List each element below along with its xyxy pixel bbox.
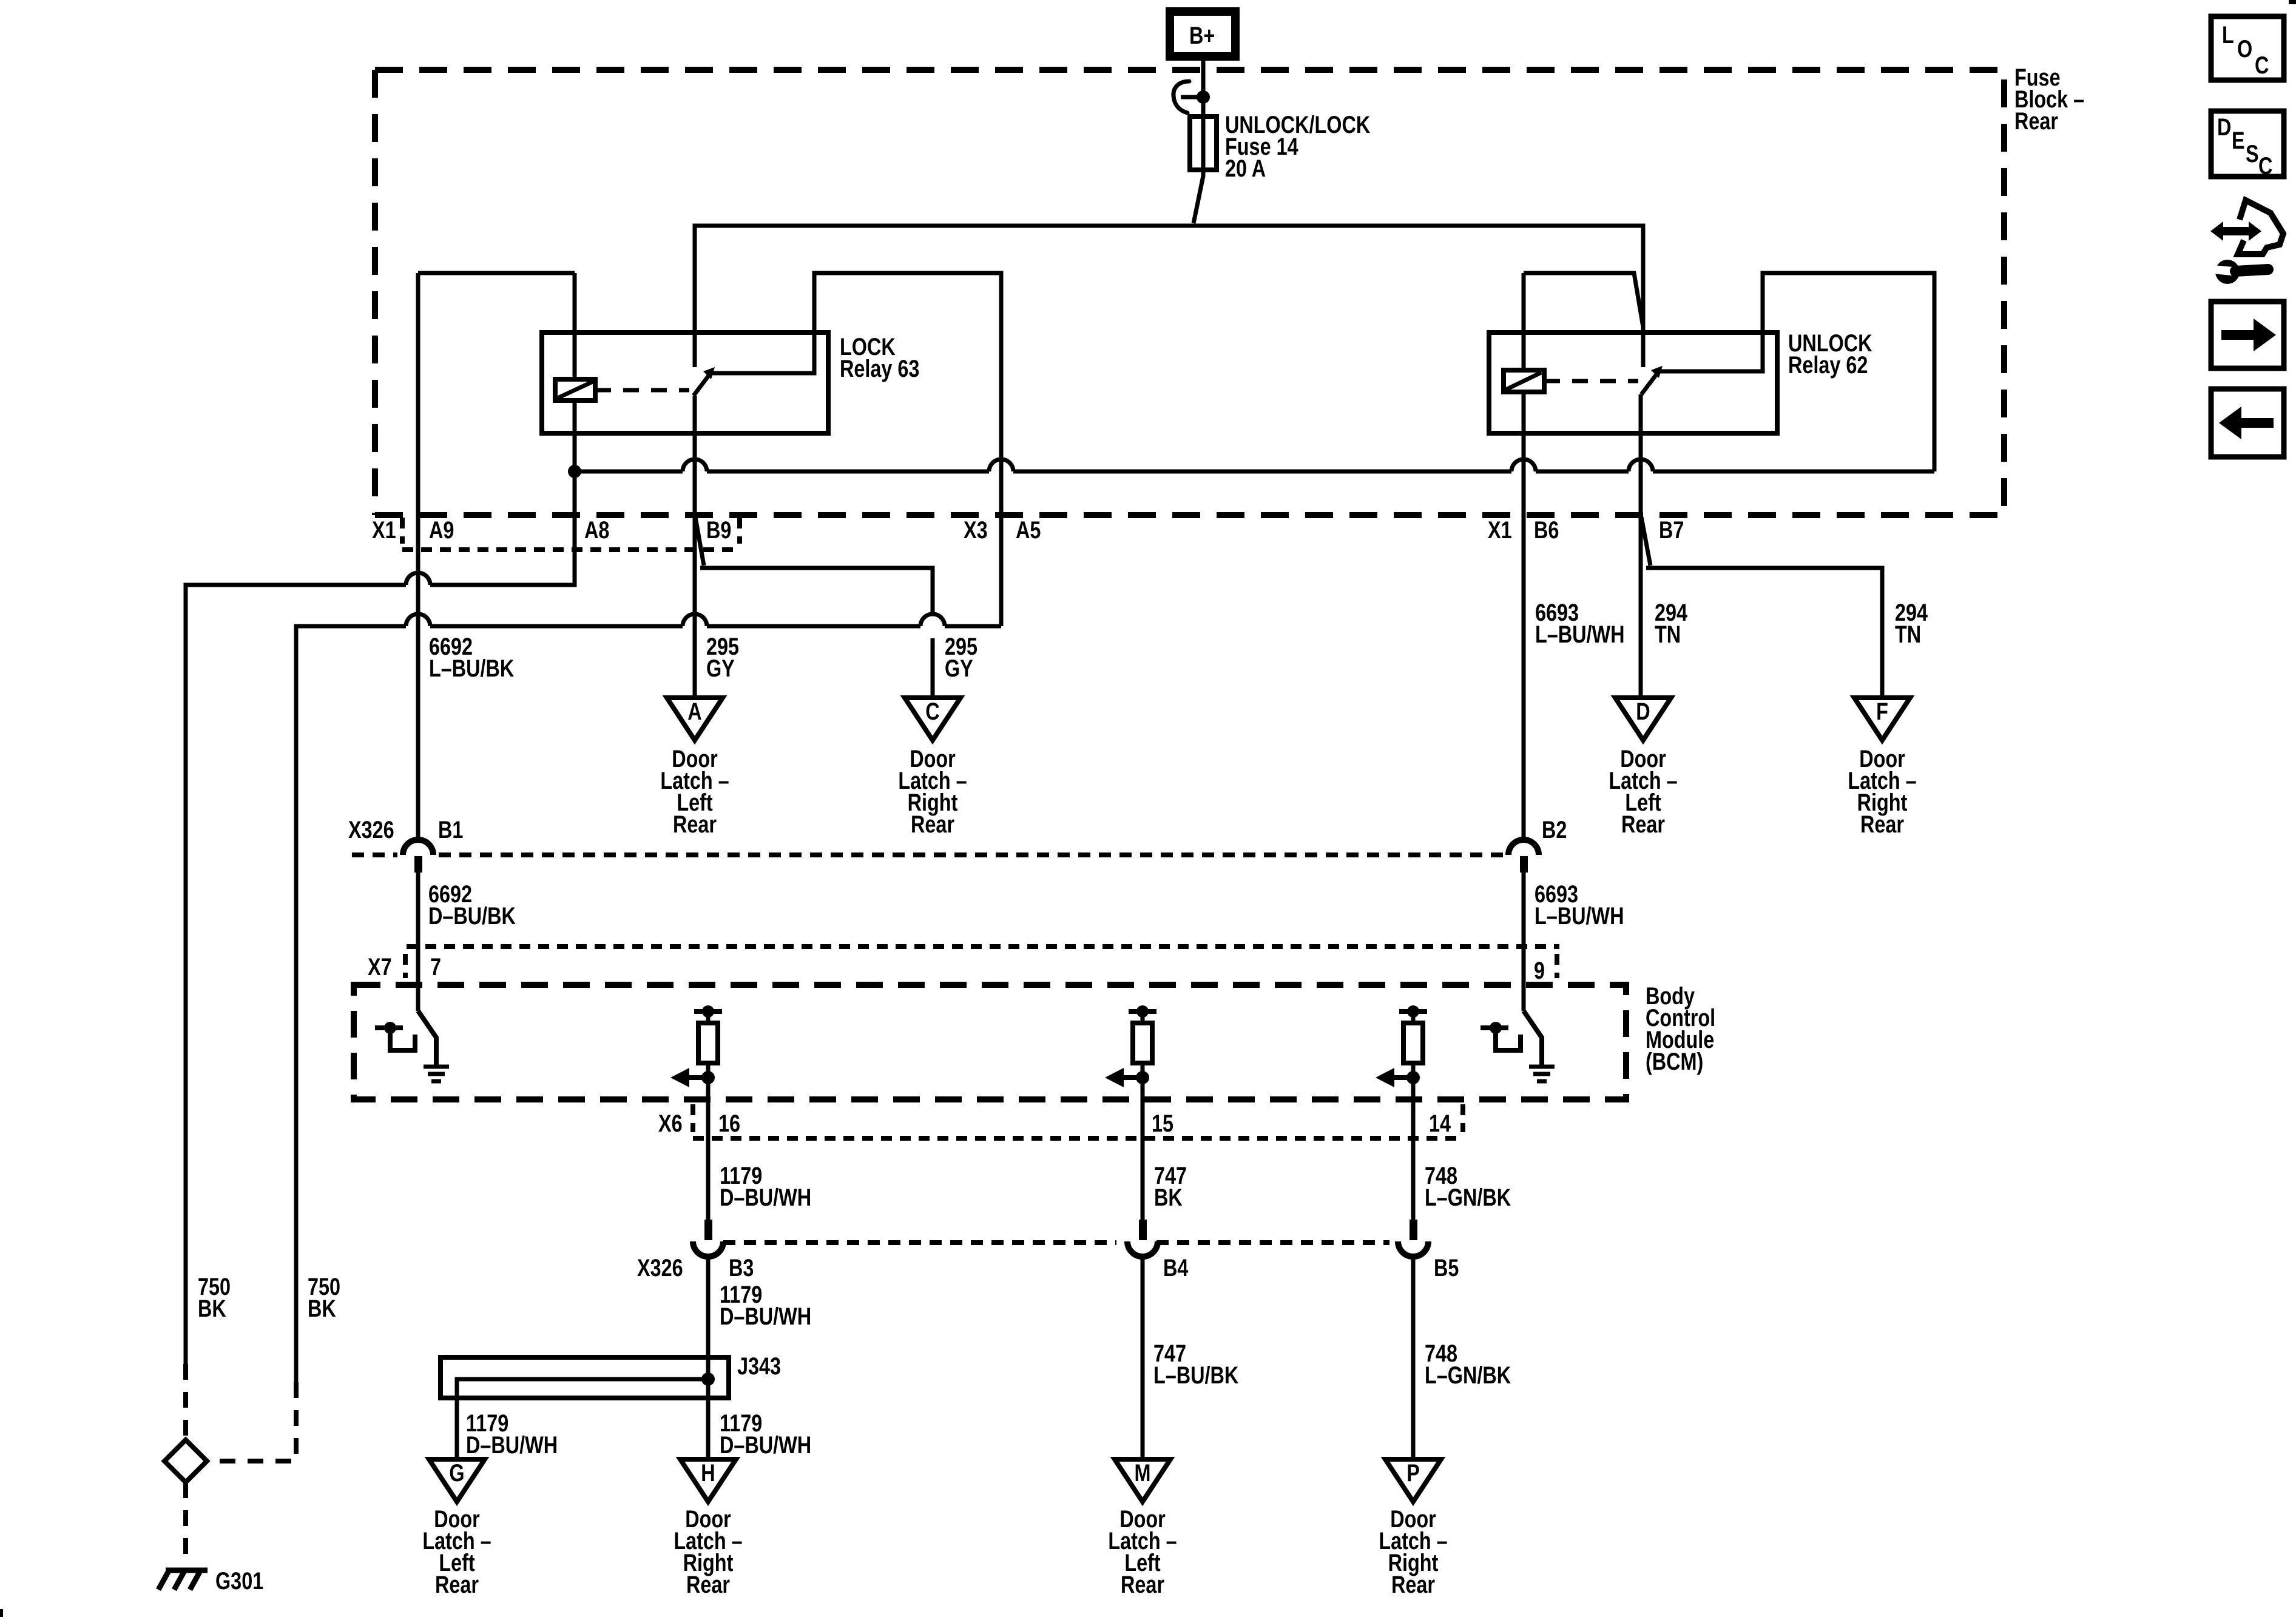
icon: LOC button [2211, 16, 2284, 80]
relay K63 switch arm [694, 367, 715, 396]
label: X1 (right) [1488, 516, 1512, 544]
wire 1179 D-BU/WH (B3 to J343) [706, 1256, 711, 1379]
label: LOCK Relay 63 [840, 333, 919, 382]
svg-text:M: M [1135, 1459, 1151, 1487]
splice diamond [164, 1440, 207, 1482]
svg-text:B6: B6 [1534, 516, 1559, 544]
label: X7 [368, 953, 392, 981]
label: 6692 D-BU/BK [428, 880, 516, 930]
svg-text:Rear: Rear [1391, 1571, 1435, 1598]
svg-text:D–BU/WH: D–BU/WH [720, 1303, 811, 1330]
label: 294 TN (right) [1895, 599, 1928, 648]
connector X326 B2 [1508, 840, 1539, 873]
connector triangle C [905, 698, 961, 740]
svg-text:L–BU/WH: L–BU/WH [1535, 621, 1624, 648]
svg-text:L–GN/BK: L–GN/BK [1425, 1362, 1511, 1389]
ground G301 [158, 1570, 208, 1590]
relay K63 coil top link [418, 271, 575, 275]
wire 750 BK dashed (left) [183, 1364, 188, 1440]
svg-text:D–BU/WH: D–BU/WH [466, 1431, 558, 1459]
relay K63 outline box [542, 333, 828, 433]
page mark (bottom left) [0, 1609, 3, 1617]
svg-text:Rear: Rear [1860, 811, 1904, 838]
wire: A8 to left 750 BK [186, 471, 575, 1364]
svg-text:B3: B3 [729, 1254, 754, 1281]
svg-text:A5: A5 [1016, 516, 1041, 544]
svg-text:Rear: Rear [435, 1571, 479, 1598]
inline connector dashed line (B1-B2 row) [352, 852, 1503, 857]
page corner mark (top right) [2289, 0, 2296, 4]
svg-text:L–BU/WH: L–BU/WH [1535, 902, 1624, 930]
BCM output driver (pin 14) [1376, 1005, 1427, 1099]
wire 747 BK (pin 15 to B4) [1141, 1099, 1145, 1220]
svg-text:BK: BK [308, 1295, 336, 1322]
connector X326 B5 [1398, 1220, 1428, 1257]
label: pin B9 [706, 516, 731, 544]
svg-text:J343: J343 [737, 1352, 781, 1380]
wire 1179 D-BU/WH (J343 to G) [455, 1398, 459, 1459]
svg-text:16: 16 [718, 1110, 740, 1137]
fuse clip symbol [1173, 81, 1210, 113]
svg-text:D–BU/WH: D–BU/WH [720, 1431, 811, 1459]
power symbol B+ [1170, 12, 1235, 56]
svg-text:X3: X3 [964, 516, 988, 544]
label: 748 L-GN/BK (pin 14) [1425, 1162, 1511, 1211]
svg-text:Rear: Rear [1121, 1571, 1164, 1598]
relay K63 switch throw to A5 [707, 273, 1001, 626]
svg-text:TN: TN [1895, 621, 1921, 648]
label: pin A9 [429, 516, 454, 544]
label: 6693 L-BU/WH (B2) [1535, 880, 1624, 930]
relay K62 coil top link [1524, 273, 1643, 327]
connector X326 B3 [693, 1220, 723, 1257]
relay K63 coil-switch dashed link [595, 388, 689, 393]
label: 750 BK (left) [198, 1273, 231, 1322]
wire: switched B+ feed bus [695, 226, 1643, 367]
svg-text:E: E [2232, 127, 2245, 154]
label: Door Latch - Left Rear (G) [422, 1505, 491, 1598]
svg-text:B5: B5 [1434, 1254, 1459, 1281]
icon: back arrow button [2211, 389, 2284, 457]
label: X326 (row 2) [637, 1254, 683, 1281]
svg-text:Relay 62: Relay 62 [1788, 351, 1868, 379]
connector triangle G [429, 1459, 485, 1502]
connector X7 dotted line [405, 947, 1559, 978]
label: pin B7 [1659, 516, 1684, 544]
wire 6692 D-BU/BK (B1 to BCM pin 7) [416, 873, 420, 1011]
label: Door Latch - Right Rear (P) [1379, 1505, 1447, 1598]
label: 1179 D-BU/WH (H) [720, 1409, 811, 1459]
label: Door Latch - Right Rear (C) [898, 745, 967, 838]
svg-text:BK: BK [1154, 1184, 1183, 1211]
label: UNLOCK Relay 62 [1788, 329, 1872, 379]
svg-text:B9: B9 [706, 516, 731, 544]
icon: DESC button [2211, 111, 2284, 180]
label: pin B2 [1542, 816, 1567, 843]
svg-text:20 A: 20 A [1225, 155, 1266, 182]
label: Door Latch - Left Rear (M) [1108, 1505, 1177, 1598]
wire: splice to G301 [183, 1482, 188, 1559]
label: G301 [215, 1567, 263, 1595]
svg-text:A8: A8 [584, 516, 609, 544]
wire 748 L-GN/BK (pin 14 to B5) [1411, 1099, 1416, 1220]
svg-text:C: C [2258, 152, 2272, 180]
svg-text:B1: B1 [438, 816, 463, 843]
wire: relay coil bus [575, 459, 1934, 471]
label: pin B3 [729, 1254, 754, 1281]
label: 1179 D-BU/WH (G) [466, 1409, 558, 1459]
svg-text:H: H [701, 1459, 715, 1487]
BCM internal ground (pin 7) [418, 1011, 449, 1081]
svg-text:F: F [1876, 698, 1888, 725]
svg-text:Rear: Rear [2014, 107, 2058, 135]
svg-text:L–BU/BK: L–BU/BK [429, 655, 514, 682]
label: 1179 D-BU/WH (pin 16) [720, 1162, 811, 1211]
label: pin A8 [584, 516, 609, 544]
svg-text:GY: GY [706, 655, 735, 682]
label: X3 [964, 516, 988, 544]
svg-text:X6: X6 [658, 1110, 683, 1137]
BCM internal ground (pin 9) [1524, 1011, 1555, 1081]
connector triangle P [1385, 1459, 1441, 1502]
wire: A5 ground bus [296, 614, 1001, 1382]
svg-text:D–BU/WH: D–BU/WH [720, 1184, 811, 1211]
connector triangle H [680, 1459, 736, 1502]
relay K62 coil [1504, 273, 1544, 471]
connector triangle D [1615, 698, 1671, 740]
wire: B9 to door latch feeds [695, 396, 933, 698]
svg-text:D–BU/BK: D–BU/BK [428, 902, 516, 930]
BCM internal switch (pin 7) [375, 1022, 415, 1050]
svg-text:L–BU/BK: L–BU/BK [1153, 1362, 1238, 1389]
label: Door Latch - Left Rear (D) [1609, 745, 1677, 838]
svg-text:D: D [2217, 113, 2231, 141]
wire: fuse to feed bus [1194, 170, 1203, 223]
label: 1179 D-BU/WH (B3) [720, 1281, 811, 1330]
svg-text:14: 14 [1429, 1110, 1451, 1137]
label: pin 15 [1152, 1110, 1173, 1137]
svg-text:7: 7 [430, 953, 441, 981]
svg-text:G301: G301 [215, 1567, 263, 1595]
relay K62 switch throw [1656, 273, 1934, 471]
label: J343 [737, 1352, 781, 1380]
wire 6693 L-BU/WH (B2 to BCM pin 9) [1522, 873, 1526, 1011]
connector pin frame X1 A9-B9 [402, 518, 740, 550]
fuse F14 (UNLOCK/LOCK 20 A) [1190, 116, 1217, 170]
label: pin B6 [1534, 516, 1559, 544]
label: 750 BK (right) [308, 1273, 340, 1322]
label: pin A5 [1016, 516, 1041, 544]
svg-text:L: L [2222, 21, 2234, 49]
svg-text:B+: B+ [1189, 22, 1215, 49]
connector triangle F [1854, 698, 1910, 740]
label: 6693 L-BU/WH (B6) [1535, 599, 1624, 648]
svg-text:B7: B7 [1659, 516, 1684, 544]
connector X326 B1 [403, 840, 433, 873]
label: 295 GY (right) [945, 633, 977, 682]
svg-text:Relay 63: Relay 63 [840, 355, 919, 382]
svg-text:X1: X1 [372, 516, 396, 544]
svg-text:Rear: Rear [673, 811, 717, 838]
icon: component view (arrows/wrench) [2210, 200, 2283, 284]
body control module dashed box [354, 985, 1626, 1099]
label: pin B5 [1434, 1254, 1459, 1281]
svg-text:O: O [2237, 35, 2252, 62]
connector triangle A [667, 698, 723, 740]
svg-text:X326: X326 [637, 1254, 683, 1281]
svg-text:GY: GY [945, 655, 973, 682]
svg-text:B2: B2 [1542, 816, 1567, 843]
inline connector dashed line (B3-B5 row) [723, 1240, 1389, 1245]
splice pack J343 [441, 1357, 729, 1398]
connector X326 B4 [1127, 1220, 1158, 1257]
label: X6 [658, 1110, 683, 1137]
label: pin 9 [1534, 957, 1545, 984]
relay K63 coil [555, 273, 595, 471]
svg-text:D: D [1636, 698, 1650, 725]
label: 747 BK [1154, 1162, 1187, 1211]
svg-text:A: A [687, 698, 701, 725]
label: 6692 L-BU/BK [429, 633, 514, 682]
svg-text:BK: BK [198, 1295, 226, 1322]
svg-text:TN: TN [1655, 621, 1681, 648]
BCM output driver (pin 16) [670, 1005, 722, 1099]
svg-text:(BCM): (BCM) [1646, 1048, 1703, 1075]
label: pin B4 [1163, 1254, 1189, 1281]
svg-text:B4: B4 [1163, 1254, 1189, 1281]
label: Door Latch - Left Rear (A) [660, 745, 729, 838]
svg-text:S: S [2246, 140, 2259, 167]
label: pin B1 [438, 816, 463, 843]
svg-text:X7: X7 [368, 953, 392, 981]
svg-text:P: P [1406, 1459, 1420, 1487]
wire 747 L-BU/BK (B4 to M) [1141, 1256, 1145, 1459]
label: pin 16 [718, 1110, 740, 1137]
wire 1179 D-BU/WH (pin 16 to B3) [706, 1099, 711, 1220]
label: Door Latch - Right Rear (H) [674, 1505, 742, 1598]
label: pin 7 [430, 953, 441, 981]
BCM internal switch (pin 9) [1481, 1022, 1521, 1050]
wire 748 L-GN/BK (B5 to P) [1411, 1256, 1416, 1459]
wire 6692 L-BU/BK (A9 to X326 B1) [416, 273, 420, 840]
wire 6693 L-BU/WH (B6 to X326 B2) [1522, 471, 1526, 840]
svg-text:C: C [2255, 52, 2269, 79]
relay K62 coil-switch dashed link [1544, 379, 1638, 383]
connector triangle M [1115, 1459, 1170, 1502]
label: X1 (left) [372, 516, 396, 544]
svg-text:C: C [925, 698, 939, 725]
connector X6 dotted line [693, 1104, 1463, 1138]
label: pin 14 [1429, 1110, 1451, 1137]
svg-text:15: 15 [1152, 1110, 1173, 1137]
wire: B+ to fuse [1201, 53, 1206, 116]
svg-text:9: 9 [1534, 957, 1545, 984]
fuse block - rear dashed border [375, 70, 2004, 515]
svg-text:Rear: Rear [686, 1571, 730, 1598]
label: Body Control Module (BCM) [1646, 982, 1715, 1075]
junction: coil bus at A8 wire [568, 465, 581, 478]
label: 748 L-GN/BK (P) [1425, 1340, 1511, 1389]
relay K62 switch arm [1641, 366, 1663, 394]
svg-text:Rear: Rear [1621, 811, 1665, 838]
label: UNLOCK/LOCK Fuse 14 20 A [1225, 111, 1370, 182]
label: Fuse Block - Rear [2014, 64, 2084, 135]
label: 295 GY (left) [706, 633, 739, 682]
svg-text:L–GN/BK: L–GN/BK [1425, 1184, 1511, 1211]
BCM output driver (pin 15) [1105, 1005, 1156, 1099]
wire 750 BK dashed (right) [210, 1382, 296, 1461]
label: X326 (row 1) [348, 816, 394, 843]
relay K62 outline box [1489, 333, 1777, 433]
svg-text:X1: X1 [1488, 516, 1512, 544]
label: 294 TN (left) [1655, 599, 1688, 648]
wire 1179 D-BU/WH (J343 to H) [706, 1379, 711, 1459]
svg-text:G: G [449, 1459, 464, 1487]
wire: B7 to door latch feeds [1641, 394, 1882, 698]
svg-text:A9: A9 [429, 516, 454, 544]
svg-text:Rear: Rear [911, 811, 954, 838]
svg-text:X326: X326 [348, 816, 394, 843]
icon: next arrow button [2211, 302, 2284, 368]
label: Door Latch - Right Rear (F) [1848, 745, 1916, 838]
label: 747 L-BU/BK [1153, 1340, 1238, 1389]
